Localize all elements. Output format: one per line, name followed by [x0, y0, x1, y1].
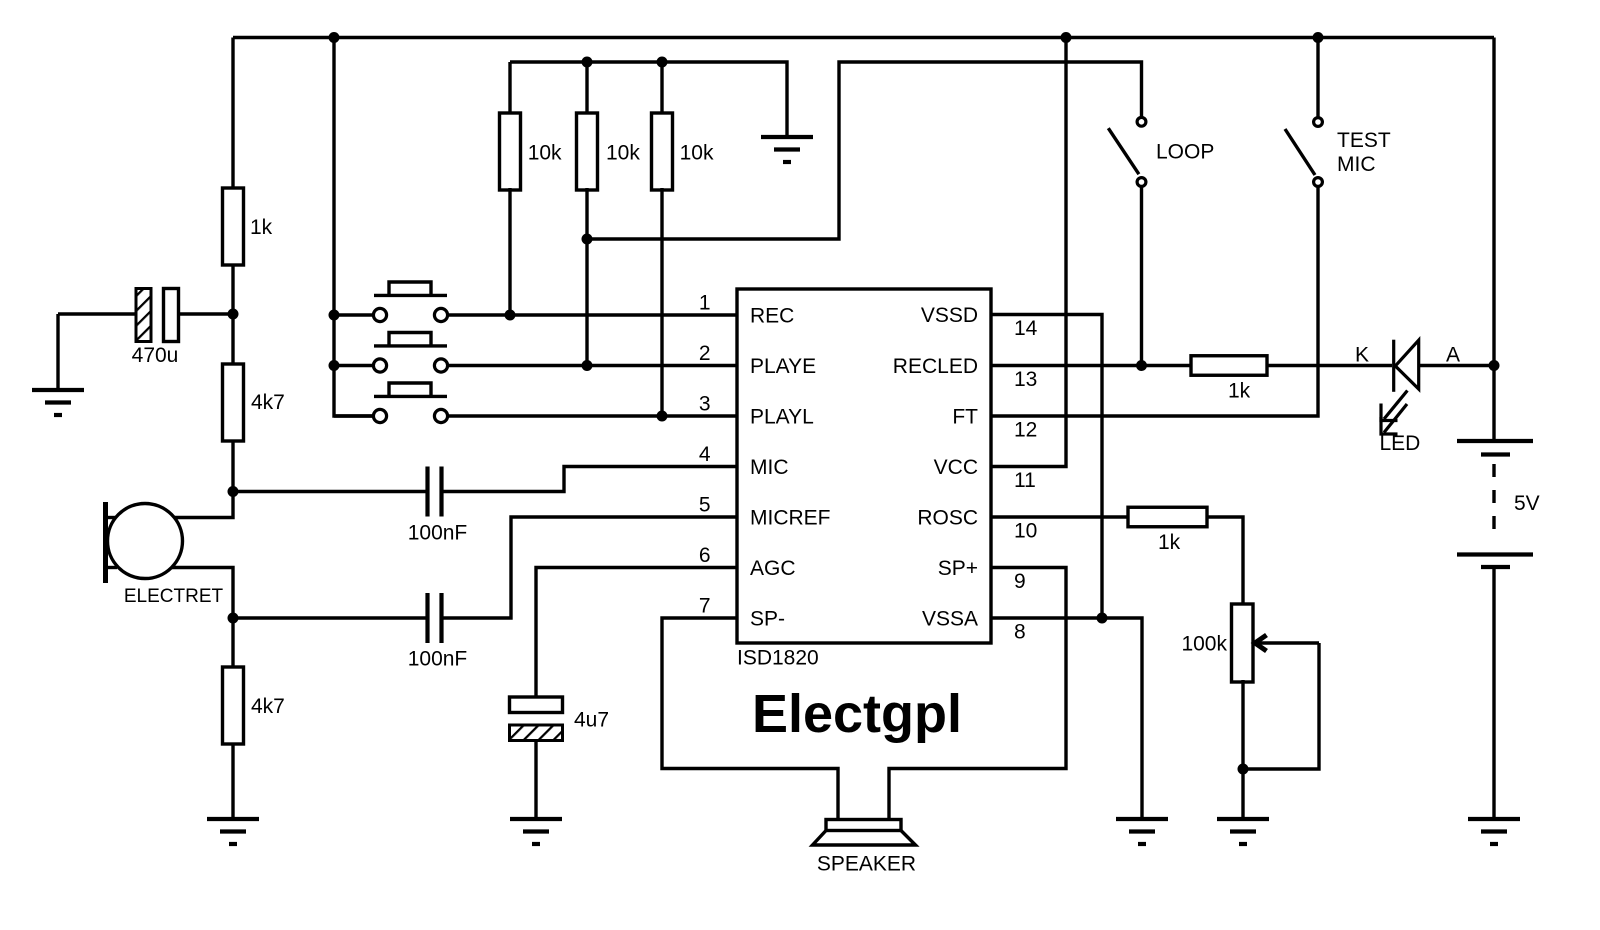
- wire S3 to PLAYL pin 3: [448, 414, 737, 417]
- svg-text:VSSA: VSSA: [922, 607, 978, 630]
- wire LED anode to battery net: [1420, 364, 1494, 367]
- wire GND rail of pull-downs: [510, 62, 787, 137]
- wire SP- pin 7 to speaker: [662, 618, 838, 820]
- svg-text:10: 10: [1014, 519, 1037, 542]
- node LED/battery junction: [1489, 360, 1500, 371]
- svg-text:100nF: 100nF: [408, 647, 468, 670]
- switch SW2 TEST MIC: [1314, 118, 1323, 127]
- svg-text:Electgpl: Electgpl: [752, 684, 962, 744]
- pushbutton S2 PLAYE: [373, 359, 386, 372]
- resistor R4 10k: [500, 113, 521, 190]
- wire R6 top lead: [660, 62, 663, 114]
- svg-text:ISD1820: ISD1820: [737, 646, 819, 669]
- speaker LS1: [826, 820, 901, 831]
- svg-text:LED: LED: [1380, 432, 1421, 455]
- wire S3 left lead: [334, 414, 373, 417]
- svg-text:FT: FT: [952, 405, 978, 428]
- resistor R6 10k: [652, 113, 673, 190]
- wire electret bottom terminal to node C: [171, 568, 233, 619]
- svg-text:13: 13: [1014, 368, 1037, 391]
- svg-text:8: 8: [1014, 620, 1026, 643]
- wire R1 top lead: [231, 38, 234, 190]
- resistor R2 4k7: [223, 364, 244, 441]
- svg-text:SP-: SP-: [750, 607, 785, 630]
- svg-text:MIC: MIC: [750, 456, 789, 479]
- wire node A to R2: [231, 314, 234, 365]
- capacitor C2 100nF: [425, 467, 429, 517]
- resistor R3 4k7: [223, 667, 244, 744]
- capacitor C1 470u: [136, 289, 151, 342]
- ground G3: [510, 817, 562, 821]
- resistor R5 10k: [577, 113, 598, 190]
- wire S2 left lead: [334, 364, 373, 367]
- resistor R1 1k: [223, 188, 244, 265]
- switch SW1 LOOP: [1137, 117, 1146, 126]
- svg-text:4: 4: [699, 443, 711, 466]
- node PLAYE branch junction: [582, 234, 593, 245]
- svg-text:9: 9: [1014, 570, 1026, 593]
- resistor R8 1k: [1128, 507, 1207, 527]
- wire pot wiper loop: [1243, 643, 1319, 769]
- diode D1 LED: [1392, 340, 1395, 392]
- svg-text:1: 1: [699, 291, 711, 314]
- node S1 rail junction: [329, 310, 340, 321]
- capacitor C4 4u7: [510, 697, 563, 713]
- wire S2 to PLAYE pin 2: [448, 364, 737, 367]
- wire node C to R3: [231, 618, 234, 668]
- wire C4 to ground G3: [534, 739, 537, 819]
- svg-text:6: 6: [699, 544, 711, 567]
- svg-text:1k: 1k: [1158, 531, 1181, 554]
- node PLAYL/R6 junction: [657, 411, 668, 422]
- wire electret top terminal to node B: [174, 492, 233, 518]
- svg-text:ROSC: ROSC: [917, 506, 978, 529]
- wire R2 bottom lead to node B: [231, 440, 234, 492]
- svg-text:SPEAKER: SPEAKER: [817, 852, 916, 875]
- svg-text:VCC: VCC: [934, 456, 978, 479]
- svg-text:PLAYE: PLAYE: [750, 355, 816, 378]
- wire SP+ pin 9 to speaker: [889, 568, 1066, 820]
- wire VSSA pin 8 to ground G4: [991, 618, 1142, 819]
- wire battery positive lead from rail: [1492, 38, 1495, 442]
- wire AGC pin 6 to C4: [536, 568, 737, 698]
- svg-text:4k7: 4k7: [251, 695, 285, 718]
- pushbutton S1 REC: [373, 308, 386, 321]
- node VSSD/VSSA junction: [1097, 613, 1108, 624]
- node PLAYE/R5 junction: [582, 360, 593, 371]
- svg-text:100nF: 100nF: [408, 521, 468, 544]
- svg-text:4u7: 4u7: [574, 708, 609, 731]
- node buttons rail junction top: [329, 32, 340, 43]
- svg-text:11: 11: [1014, 469, 1036, 492]
- svg-text:10k: 10k: [528, 141, 562, 164]
- capacitor C3 100nF: [425, 593, 429, 643]
- wire S1 to REC pin 1: [448, 313, 737, 316]
- wire R8 to potentiometer: [1207, 517, 1243, 604]
- ground G5: [1217, 817, 1269, 821]
- wire VCC pin 11 to top rail: [991, 38, 1066, 467]
- wire S1 left lead: [334, 313, 373, 316]
- svg-text:REC: REC: [750, 304, 794, 327]
- node VCC rail junction: [1061, 32, 1072, 43]
- svg-text:MIC: MIC: [1337, 153, 1376, 176]
- ground G2: [207, 817, 259, 821]
- svg-text:K: K: [1355, 344, 1369, 367]
- wire R4 top lead: [508, 62, 511, 114]
- svg-text:MICREF: MICREF: [750, 506, 831, 529]
- wire TEST MIC switch to FT pin 12: [991, 186, 1318, 416]
- svg-text:TEST: TEST: [1337, 129, 1391, 152]
- svg-text:RECLED: RECLED: [893, 355, 978, 378]
- svg-text:470u: 470u: [132, 344, 179, 367]
- svg-text:1k: 1k: [1228, 379, 1251, 402]
- wire VSSD pin 14 to VSSA: [991, 315, 1102, 619]
- svg-text:A: A: [1446, 344, 1460, 367]
- wire battery negative to ground G6: [1492, 568, 1495, 819]
- wire VCC to TEST MIC switch: [1316, 38, 1319, 118]
- wire pot bottom to ground G5: [1241, 680, 1244, 819]
- potentiometer R9 100k: [1232, 604, 1254, 682]
- op-amp U1 ISD1820 body: [737, 289, 991, 643]
- svg-text:PLAYL: PLAYL: [750, 405, 814, 428]
- battery BT1 5V: [1457, 439, 1533, 443]
- wire C1 to ground G1: [56, 314, 59, 390]
- ground G4: [1116, 817, 1168, 821]
- wire R5 bottom lead to PLAYE line: [585, 188, 588, 366]
- pushbutton S3 PLAYL: [373, 409, 386, 422]
- node pot bottom junction: [1238, 764, 1249, 775]
- ground G7: [761, 135, 813, 139]
- wire node C to C3: [233, 616, 426, 619]
- svg-text:AGC: AGC: [750, 557, 796, 580]
- node B (mic bias / MIC coupling): [228, 486, 239, 497]
- svg-text:10k: 10k: [606, 141, 640, 164]
- node C (electret- / MICREF coupling): [228, 613, 239, 624]
- node REC/R4 junction: [505, 310, 516, 321]
- svg-text:4k7: 4k7: [251, 391, 285, 414]
- svg-text:14: 14: [1014, 317, 1038, 340]
- svg-text:3: 3: [699, 392, 711, 415]
- node S2 rail junction: [329, 360, 340, 371]
- wire R5 top lead: [585, 62, 588, 114]
- svg-text:5V: 5V: [1514, 492, 1540, 515]
- node RECLED/LOOP junction: [1136, 360, 1147, 371]
- ground G6: [1468, 817, 1520, 821]
- svg-text:7: 7: [699, 594, 711, 617]
- svg-text:ELECTRET: ELECTRET: [124, 586, 224, 607]
- wire C1 left lead: [58, 312, 137, 315]
- svg-text:SP+: SP+: [938, 557, 978, 580]
- microphone MIC1 ELECTRET: [108, 504, 183, 579]
- wire PLAYE branch to LOOP switch: [587, 62, 1142, 239]
- svg-text:100k: 100k: [1181, 632, 1227, 655]
- node A (1k/4k7/470u junction): [228, 309, 239, 320]
- wire R3 bottom lead to ground G2: [231, 744, 234, 819]
- svg-text:10k: 10k: [680, 141, 714, 164]
- node 10k R5 top junction: [582, 57, 593, 68]
- svg-text:2: 2: [699, 342, 711, 365]
- wire C1 right lead to node A: [178, 312, 233, 315]
- svg-text:1k: 1k: [250, 216, 273, 239]
- wire node B to C2: [233, 490, 426, 493]
- wire R1 bottom lead to node A: [231, 264, 234, 314]
- node 10k R6 top junction: [657, 57, 668, 68]
- resistor R7 1k: [1191, 356, 1267, 376]
- ground G1: [32, 388, 84, 392]
- wire R6 bottom lead to PLAYL line: [660, 188, 663, 416]
- wire RECLED pin 13 to R7: [991, 364, 1192, 367]
- wire C3 to MICREF pin 5: [444, 517, 738, 618]
- svg-text:5: 5: [699, 493, 711, 516]
- wire LOOP switch to RECLED line: [1140, 186, 1143, 365]
- svg-text:12: 12: [1014, 418, 1037, 441]
- wire ROSC pin 10 to R8: [991, 515, 1129, 518]
- svg-text:VSSD: VSSD: [921, 304, 978, 327]
- wire VCC top rail: [233, 36, 1494, 39]
- svg-text:LOOP: LOOP: [1156, 140, 1214, 163]
- wire R4 bottom lead to REC line: [508, 188, 511, 315]
- wire C2 to MIC pin 4: [444, 467, 738, 492]
- wire R7 to LED cathode: [1267, 364, 1392, 367]
- wire button supply rail from VCC: [334, 38, 374, 417]
- node VCC/TESTMIC junction: [1313, 32, 1324, 43]
